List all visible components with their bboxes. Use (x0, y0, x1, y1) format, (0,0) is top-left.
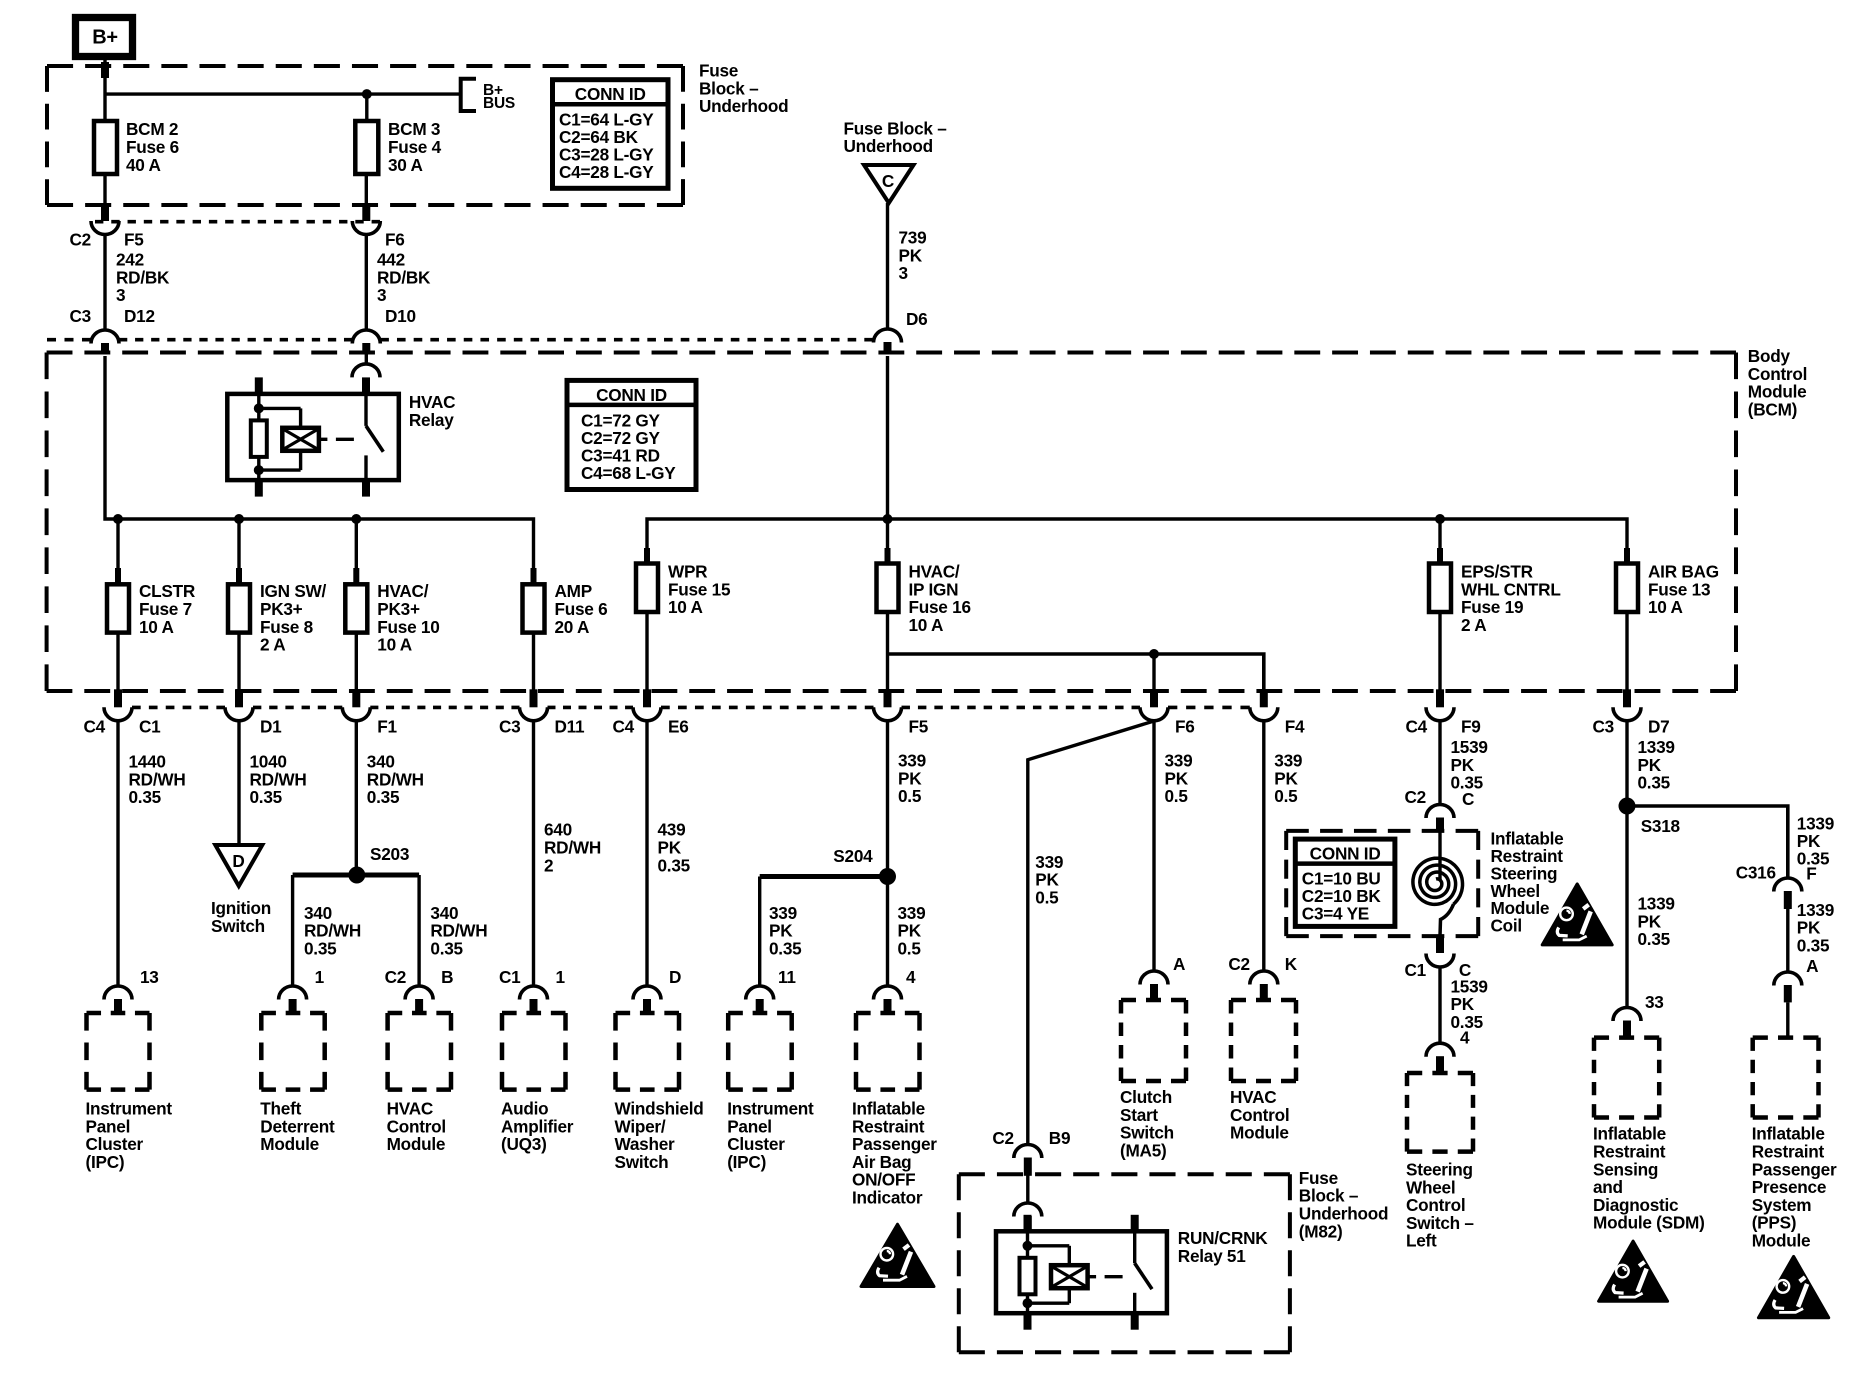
svg-text:S203: S203 (370, 844, 409, 864)
svg-text:C3: C3 (70, 306, 91, 326)
wire 339 PK 0.5 from F5 to S204 (886, 721, 889, 874)
svg-text:0.35: 0.35 (129, 787, 162, 807)
svg-text:C: C (882, 171, 894, 191)
svg-text:D7: D7 (1648, 717, 1669, 737)
connector F6 (BCM output) (1150, 689, 1158, 707)
wires from fuses to BCM output connectors (116, 633, 119, 691)
svg-text:Module: Module (387, 1134, 446, 1154)
svg-text:Underhood: Underhood (699, 96, 788, 116)
svg-text:33: 33 (1645, 992, 1664, 1012)
connector into steering wheel control switch (1426, 1043, 1454, 1057)
svg-text:B+: B+ (92, 27, 118, 49)
wire BCM3 fuse to connector F6 (365, 174, 368, 203)
fuse IGN SW/PK3+ Fuse 8 2 A (228, 584, 250, 632)
svg-text:1: 1 (556, 967, 566, 987)
inline connector C316 upper half F (1774, 878, 1802, 891)
connector C4/E6 (BCM output) (643, 689, 651, 707)
svg-text:D11: D11 (555, 717, 586, 737)
connector C2 / F5 (101, 203, 109, 221)
conn id table of coil connectors (1295, 839, 1395, 926)
connector C4/C1 (BCM output) (114, 689, 122, 707)
svg-text:C3: C3 (1593, 717, 1614, 737)
wire S318 branch to C316 (1627, 806, 1788, 878)
connector line above BCM (47, 338, 91, 342)
svg-text:0.35: 0.35 (1797, 936, 1830, 956)
connector C3 / D12 (91, 330, 119, 343)
svg-text:C4: C4 (84, 717, 106, 737)
connector pin 13 of IPC (104, 986, 132, 999)
svg-text:20 A: 20 A (555, 617, 590, 637)
svg-text:F5: F5 (124, 230, 144, 250)
svg-text:(IPC): (IPC) (727, 1152, 766, 1172)
svg-text:3: 3 (899, 263, 908, 283)
svg-text:D10: D10 (385, 306, 416, 326)
connector F6 (fuse block output) (362, 203, 370, 221)
svg-text:C1: C1 (1405, 960, 1427, 980)
fuse BCM 2 Fuse 6 40 A (365, 94, 368, 121)
svg-text:C3: C3 (499, 717, 520, 737)
svg-text:C2: C2 (992, 1128, 1013, 1148)
wire 1539 PK 0.35 pin 4 to steering wheel switch (1438, 967, 1441, 1043)
svg-text:C1: C1 (139, 717, 161, 737)
connector inside M82 to relay (1014, 1203, 1042, 1217)
svg-text:C2: C2 (1228, 954, 1249, 974)
connector C1 below coil (1436, 935, 1444, 953)
svg-text:D12: D12 (124, 306, 155, 326)
wire 640 RD/WH 2 to audio amplifier (532, 721, 535, 986)
svg-text:F: F (1806, 864, 1816, 884)
svg-text:0.5: 0.5 (898, 938, 922, 958)
fuse HVAC/PK3+ Fuse 10 10 A (345, 584, 367, 632)
svg-text:Switch: Switch (615, 1152, 669, 1172)
connector C2 into steering wheel coil (1426, 805, 1454, 819)
coil spiral symbol (1438, 831, 1441, 880)
inline connector C316 lower half A (1774, 972, 1802, 986)
wire 340 RD/WH 0.35 to HVAC control module (417, 875, 420, 986)
wire 1539 PK 0.35 from F9 to coil connector C2 (1438, 721, 1441, 805)
svg-text:S204: S204 (833, 846, 873, 866)
svg-text:2: 2 (544, 855, 553, 875)
ignition switch (215, 845, 262, 886)
svg-text:(MA5): (MA5) (1120, 1140, 1167, 1160)
air bag symbol below PPS (1758, 1256, 1828, 1317)
wire 339 PK 0.5 from F4 to HVAC control module (1262, 721, 1265, 971)
air bag symbol below SDM (1599, 1241, 1668, 1301)
svg-text:2 A: 2 A (1461, 615, 1486, 635)
box Inflatable Restraint Passenger Presence System PPS Module (1753, 1035, 1819, 1040)
connector pin 11 of IPC (746, 986, 774, 999)
connector D1 (BCM output) (235, 689, 243, 707)
connector D6 (874, 329, 902, 343)
wire fuse 16 to F5 with sub-bus to F6 and F4 (886, 612, 889, 691)
wire 1440 RD/WH 0.35 to IPC (116, 721, 119, 986)
connector line below fuse block (95, 220, 380, 224)
box HVAC Control Module (left) (388, 1011, 451, 1016)
svg-text:1: 1 (315, 967, 325, 987)
box Windshield Wiper/Washer Switch (616, 1011, 680, 1016)
connector at HVAC relay switch pin (365, 353, 368, 366)
connector B+ BUS (461, 79, 476, 111)
wire 1040 RD/WH 0.35 to ignition switch (237, 721, 240, 845)
svg-text:11: 11 (778, 967, 796, 987)
fuse AIR BAG Fuse 13 10 A (1616, 564, 1638, 613)
svg-text:CONN ID: CONN ID (596, 385, 667, 405)
svg-text:10 A: 10 A (377, 635, 412, 655)
svg-text:0.35: 0.35 (658, 855, 691, 875)
connector F1 (BCM output) (352, 689, 360, 707)
svg-text:2 A: 2 A (260, 635, 285, 655)
svg-text:C4: C4 (613, 717, 635, 737)
svg-text:A: A (1806, 956, 1818, 976)
svg-text:(UQ3): (UQ3) (501, 1134, 547, 1154)
svg-text:F6: F6 (385, 230, 405, 250)
svg-text:D6: D6 (906, 309, 927, 329)
svg-text:10 A: 10 A (668, 597, 703, 617)
svg-text:C3=4 YE: C3=4 YE (1302, 904, 1369, 924)
svg-text:0.35: 0.35 (367, 787, 400, 807)
dashed box Fuse Block - Underhood (47, 64, 683, 68)
svg-text:0.35: 0.35 (250, 787, 283, 807)
fuse EPS/STR WHL CNTRL Fuse 19 2 A (1429, 564, 1451, 613)
wire 1339 PK 0.35 to SDM pin 33 (1625, 806, 1628, 1008)
svg-text:0.5: 0.5 (1274, 786, 1298, 806)
bus drop to HVAC fuse (351, 514, 361, 524)
svg-text:B9: B9 (1049, 1128, 1070, 1148)
fuse WPR Fuse 15 10 A (636, 564, 658, 613)
svg-text:Left: Left (1406, 1231, 1437, 1251)
svg-text:C316: C316 (1736, 863, 1776, 883)
box Clutch Start Switch MA5 (1121, 998, 1186, 1003)
svg-text:10 A: 10 A (139, 617, 174, 637)
svg-text:C4: C4 (1406, 717, 1428, 737)
svg-text:Underhood: Underhood (844, 136, 933, 156)
svg-text:Module: Module (1752, 1231, 1811, 1251)
bus drop to IGN SW fuse (234, 514, 244, 524)
svg-text:Module (SDM): Module (SDM) (1593, 1213, 1705, 1233)
svg-text:C4=28 L-GY: C4=28 L-GY (559, 162, 654, 182)
wire 1339 PK 0.35 to PPS pin A (1786, 909, 1789, 972)
fuse AMP Fuse 6 20 A (523, 584, 545, 632)
wire 242 RD/BK 3 (103, 235, 106, 331)
wire 340 RD/WH 0.35 to theft deterrent module (291, 875, 294, 986)
wire D6 to internal bus (right segment) (647, 519, 1627, 564)
svg-text:3: 3 (116, 285, 125, 305)
svg-text:S318: S318 (1641, 816, 1681, 836)
svg-text:0.35: 0.35 (430, 938, 463, 958)
svg-text:30 A: 30 A (388, 155, 423, 175)
connector pin 4 of air bag on/off indicator (874, 986, 902, 999)
connector pin 33 of SDM (1613, 1008, 1641, 1022)
svg-text:Module: Module (1230, 1123, 1289, 1143)
connector line below BCM (132, 706, 225, 710)
svg-text:0.5: 0.5 (898, 786, 922, 806)
connector pin A of clutch start switch (1140, 971, 1168, 985)
svg-text:0.35: 0.35 (1638, 929, 1671, 949)
box Instrument Panel Cluster (87, 1011, 150, 1016)
svg-text:CONN ID: CONN ID (575, 84, 646, 104)
wire D12 to internal bus (left segment) (105, 356, 534, 584)
svg-text:C2: C2 (385, 967, 406, 987)
connector F5 (BCM output) (884, 689, 892, 707)
svg-text:0.5: 0.5 (1035, 887, 1059, 907)
svg-text:F5: F5 (909, 717, 929, 737)
fuse CLSTR Fuse 7 10 A (107, 584, 129, 632)
connector C4/F9 (BCM output) (1436, 689, 1444, 707)
svg-text:A: A (1173, 954, 1185, 974)
svg-text:C: C (1462, 789, 1474, 809)
wire 339 PK 0.5 to air bag indicator pin 4 (886, 877, 889, 987)
svg-text:K: K (1285, 954, 1298, 974)
svg-text:(BCM): (BCM) (1748, 399, 1797, 419)
svg-text:F6: F6 (1175, 717, 1195, 737)
svg-text:10 A: 10 A (1648, 597, 1683, 617)
wire inside M82 to relay connector (1026, 1174, 1029, 1203)
svg-text:Module: Module (260, 1134, 319, 1154)
svg-text:Relay 51: Relay 51 (1178, 1246, 1246, 1266)
svg-text:Switch: Switch (211, 916, 265, 936)
svg-text:F9: F9 (1461, 717, 1481, 737)
bus drop to CLSTR fuse (113, 514, 123, 524)
svg-text:0.35: 0.35 (769, 938, 802, 958)
svg-text:D: D (669, 967, 681, 987)
svg-text:BUS: BUS (483, 95, 515, 112)
RUN/CRNK Relay 51 (996, 1231, 1167, 1313)
wire 1339 PK 0.35 from D7 to S318 (1625, 721, 1628, 806)
connector C2 / B9 into fuse block M82 (1014, 1145, 1042, 1159)
connector D10 (352, 330, 380, 344)
box Instrument Panel Cluster (second) (728, 1011, 792, 1016)
svg-text:B: B (441, 967, 453, 987)
HVAC Relay (227, 394, 398, 480)
box HVAC Control Module (right) (1231, 998, 1296, 1003)
dashed box Fuse Block - Underhood M82 (959, 1172, 1290, 1176)
connector F4 (BCM output) (1260, 689, 1268, 707)
air bag symbol near steering wheel coil (1542, 884, 1612, 945)
box Inflatable Restraint Sensing and Diagnostic Module SDM (1594, 1035, 1659, 1040)
connector C3/D7 (BCM output) (1623, 689, 1631, 707)
svg-text:D: D (232, 851, 244, 871)
svg-text:4: 4 (1460, 1027, 1470, 1047)
svg-text:(M82): (M82) (1299, 1221, 1343, 1241)
box Steering Wheel Control Switch - Left (1407, 1071, 1473, 1076)
svg-text:C4=68 L-GY: C4=68 L-GY (581, 463, 676, 483)
connector C1 pin 1 of audio amplifier (520, 986, 548, 999)
svg-text:0.5: 0.5 (1165, 786, 1189, 806)
wire 439 PK 0.35 to wiper switch (645, 721, 648, 986)
svg-text:C2: C2 (1405, 787, 1426, 807)
wire 339 PK 0.5 diagonal to RUN/CRNK relay (1028, 721, 1154, 1145)
svg-text:0.35: 0.35 (1638, 773, 1671, 793)
svg-text:E6: E6 (668, 717, 689, 737)
splice S204 (760, 874, 888, 879)
dashed box steering wheel module coil (1286, 829, 1478, 833)
box Theft Deterrent Module (261, 1011, 324, 1016)
connector C2 pin B of HVAC control module (405, 986, 433, 999)
svg-text:10 A: 10 A (909, 615, 944, 635)
svg-text:CONN ID: CONN ID (1310, 844, 1381, 864)
fuse BCM 3 Fuse 4 30 A (355, 121, 378, 174)
svg-text:D1: D1 (260, 717, 282, 737)
connector C2 pin K of HVAC control module (1250, 971, 1278, 985)
svg-text:4: 4 (906, 967, 916, 987)
splice S318 (1619, 798, 1636, 815)
svg-text:(IPC): (IPC) (86, 1152, 125, 1172)
wire 739 PK 3 (886, 203, 889, 329)
wire B+ bus feed (105, 92, 461, 95)
wire 442 RD/BK 3 (365, 235, 368, 331)
svg-text:Indicator: Indicator (852, 1188, 923, 1208)
wire 339 PK 0.5 from F6 to clutch start switch (1152, 721, 1155, 971)
svg-text:C2: C2 (70, 230, 91, 250)
svg-text:Coil: Coil (1491, 916, 1522, 936)
wire B+ down into fuse block (103, 56, 106, 121)
svg-text:13: 13 (140, 967, 159, 987)
junction on B+ bus (362, 89, 372, 99)
connector C3/D11 (BCM output) (530, 689, 538, 707)
svg-text:F4: F4 (1285, 717, 1305, 737)
splice S203 (293, 873, 420, 878)
svg-text:40 A: 40 A (126, 155, 161, 175)
air bag symbol below indicator (861, 1224, 934, 1286)
fuse HVAC/IP IGN Fuse 16 10 A (877, 564, 899, 613)
box Audio Amplifier UQ3 (502, 1011, 566, 1016)
svg-text:0.35: 0.35 (304, 938, 337, 958)
connector pin 1 of theft deterrent module (279, 986, 307, 999)
box Inflatable Restraint Passenger Air Bag ON/OFF Indicator (856, 1011, 920, 1016)
wire 340 RD/WH 0.35 to S203 (355, 721, 358, 873)
power feed B+ terminal (76, 18, 133, 57)
conn id table of fuse block underhood (553, 80, 669, 189)
svg-text:Relay: Relay (409, 410, 454, 430)
svg-text:C1: C1 (499, 967, 521, 987)
conn id table of BCM (567, 380, 696, 489)
bus drop to EPS fuse (1435, 514, 1445, 524)
dashed box Body Control Module (47, 351, 1736, 355)
connector pin D of wiper/washer switch (633, 986, 661, 999)
svg-text:3: 3 (377, 285, 386, 305)
svg-text:F1: F1 (377, 717, 397, 737)
junction to F6 (1149, 649, 1159, 659)
wire BCM2 fuse to connector C2 (103, 174, 106, 203)
wire 339 PK 0.35 to IPC pin 11 (758, 877, 761, 987)
